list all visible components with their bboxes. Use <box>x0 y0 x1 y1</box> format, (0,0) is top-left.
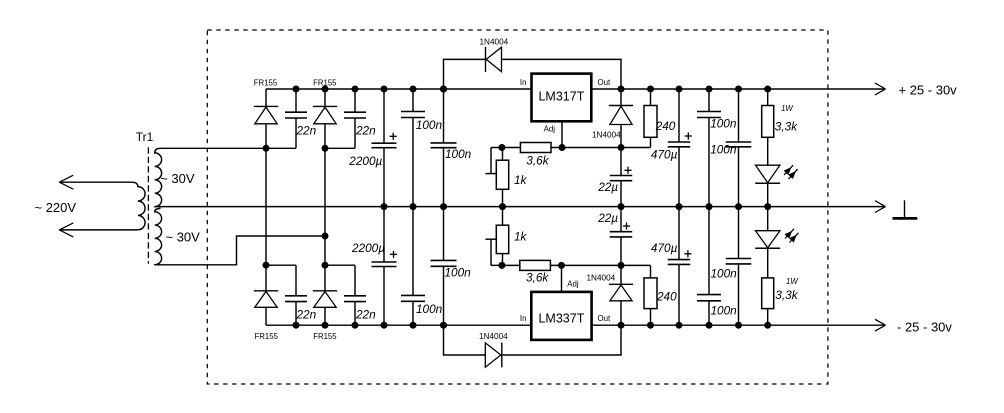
wire adj rail left (top) <box>491 147 520 149</box>
wire secondary top lead to bridge <box>160 147 297 149</box>
wire - rail left <box>266 324 532 326</box>
svg-text:100n: 100n <box>445 147 472 161</box>
wire U2 Adj pin <box>561 265 563 292</box>
svg-text:100n: 100n <box>416 302 443 316</box>
transformer Tr1 primary winding <box>59 182 145 230</box>
junction C13 top <box>706 86 713 93</box>
diode FR155 D2 (upper bridge right) <box>313 89 337 148</box>
- output arrow <box>875 319 886 331</box>
junction C18 bottom <box>735 322 742 329</box>
wire secondary bottom lead with jog <box>160 236 326 265</box>
wire AC column 2 <box>324 148 326 265</box>
capacitor 100n C13 (top) <box>697 89 721 207</box>
trimmer 1k P1 (top) <box>486 148 509 207</box>
plus C11 <box>624 169 631 171</box>
diode FR155 D4 (lower bridge right) <box>313 265 337 325</box>
wire lower bridge stub 2 <box>325 264 355 266</box>
svg-text:100n: 100n <box>710 143 737 157</box>
junction C7 top <box>410 86 417 93</box>
LED D7 (top) <box>755 165 780 206</box>
capacitor 22n C2 <box>344 89 366 148</box>
junction Out node (top) <box>618 86 625 93</box>
junction C5 top <box>381 86 388 93</box>
capacitor 470u C16 (bottom) <box>668 207 691 326</box>
svg-text:+ 25 - 30v: + 25 - 30v <box>899 83 958 98</box>
svg-text:Tr1: Tr1 <box>136 130 154 144</box>
junction C7 ground <box>410 203 417 210</box>
svg-text:22n: 22n <box>355 308 376 322</box>
capacitor 100n C8 (bottom) <box>401 207 425 326</box>
plus C16 <box>684 253 691 255</box>
junction D7 ground <box>764 203 771 210</box>
junction C12 ground <box>676 203 683 210</box>
regulator U1 LM317T <box>532 74 592 122</box>
plus C6 <box>390 253 397 255</box>
diode FR155 D3 (lower bridge left) <box>254 265 278 325</box>
wire In riser to protection diode (bottom) <box>444 325 486 355</box>
junction C11 ground <box>618 203 625 210</box>
junction C10 bottom <box>440 322 447 329</box>
capacitor 100n C10 (bottom) <box>431 207 457 326</box>
junction C9 ground <box>440 203 447 210</box>
junction AC2 top <box>322 145 329 152</box>
junction R6 bottom <box>764 322 771 329</box>
svg-text:1N4004: 1N4004 <box>480 38 509 47</box>
junction C4 bottom <box>352 322 359 329</box>
junction C12 top <box>676 86 683 93</box>
svg-text:Out: Out <box>598 78 612 87</box>
junction D4 bottom <box>322 322 329 329</box>
wire + rail left <box>266 88 532 90</box>
capacitor 100n C14 (top) <box>726 89 752 207</box>
junction P1 ground node <box>499 203 506 210</box>
capacitor 22n C4 <box>344 265 366 325</box>
svg-text:470µ: 470µ <box>651 148 678 162</box>
svg-text:100n: 100n <box>416 118 443 132</box>
wire - rail right <box>591 324 885 326</box>
junction Out node (bottom) <box>618 322 625 329</box>
transformer secondary lower winding ~30V <box>155 208 162 264</box>
capacitor 22u C11 (top) <box>610 148 633 207</box>
junction In node (bottom) <box>440 322 447 329</box>
junction C6 bottom <box>381 322 388 329</box>
svg-text:22n: 22n <box>296 308 317 322</box>
+ output arrow <box>875 83 886 95</box>
junction R5 bottom <box>647 322 654 329</box>
svg-text:Out: Out <box>598 314 612 323</box>
svg-text:100n: 100n <box>711 304 738 318</box>
junction C13 ground <box>706 203 713 210</box>
svg-text:3,3k: 3,3k <box>775 120 798 134</box>
junction C1 top <box>293 86 300 93</box>
junction U2 adj node <box>558 262 565 269</box>
capacitor 100n C7 (top) <box>401 89 425 207</box>
junction C5 ground <box>381 203 388 210</box>
svg-text:1W: 1W <box>781 104 793 113</box>
junction P2 bottom node <box>498 262 505 269</box>
svg-text:22n: 22n <box>355 123 376 137</box>
svg-text:22µ: 22µ <box>597 211 618 225</box>
ground symbol <box>893 200 918 218</box>
capacitor 100n C18 (bottom) <box>726 207 752 326</box>
junction C17 bottom <box>706 322 713 329</box>
wire ground rail <box>160 206 886 208</box>
resistor 240 R2 (top) <box>644 89 657 148</box>
junction R2 top <box>647 86 654 93</box>
wire adj rail left (bottom) <box>491 264 520 266</box>
diode 1N4004 D8 (LM337 protection) <box>485 343 502 368</box>
resistor 3,3k R3 (top) <box>762 89 774 165</box>
capacitor 100n C9 (top) <box>431 89 457 207</box>
svg-text:240: 240 <box>656 290 677 304</box>
junction D2 top <box>322 86 329 93</box>
LED D10 (bottom) <box>755 207 780 249</box>
svg-text:1N4004: 1N4004 <box>587 274 616 283</box>
svg-text:1W: 1W <box>786 277 798 286</box>
svg-text:2200µ: 2200µ <box>348 154 382 168</box>
wire lower bridge stub 1 <box>266 264 296 266</box>
transformer core <box>147 147 149 264</box>
svg-text:~ 220V: ~ 220V <box>35 200 77 215</box>
resistor 240 R5 (bottom) <box>644 265 657 325</box>
wire AC column 1 <box>265 148 267 265</box>
svg-text:3,6k: 3,6k <box>526 154 549 168</box>
capacitor 470u C12 (top) <box>668 89 691 207</box>
svg-text:22n: 22n <box>296 123 317 137</box>
resistor 3,3k R6 (bottom) <box>762 248 774 325</box>
capacitor 22u C15 (bottom) <box>610 207 633 266</box>
svg-text:FR155: FR155 <box>313 332 337 341</box>
junction D9 adj rail <box>618 262 625 269</box>
wire In riser to protection diode (top) <box>444 59 486 89</box>
resistor 3,6k R1 (top) <box>520 143 551 153</box>
junction C14 top <box>735 86 742 93</box>
primary input arrow top <box>59 175 73 189</box>
plus C5 <box>390 135 397 137</box>
junction C16 bottom <box>676 322 683 329</box>
svg-text:3,6k: 3,6k <box>526 271 549 285</box>
wire protection diode to Out riser (top) <box>502 59 622 89</box>
svg-text:LM317T: LM317T <box>538 89 584 103</box>
junction AC2 bottom <box>322 262 329 269</box>
diode 1N4004 D6 (adj discharge top) <box>609 89 633 148</box>
wire protection diode to Out riser (bottom) <box>502 325 621 355</box>
dashed enclosure border <box>207 30 828 384</box>
plus C15 <box>623 225 630 227</box>
svg-text:1k: 1k <box>514 173 528 187</box>
ground output arrow <box>875 201 886 213</box>
wire AC2 top stub <box>325 147 355 149</box>
svg-text:- 25 - 30v: - 25 - 30v <box>897 319 952 334</box>
svg-text:1N4004: 1N4004 <box>592 130 621 139</box>
diode 1N4004 D9 (adj discharge bottom) <box>609 265 633 325</box>
svg-text:LM337T: LM337T <box>538 311 584 325</box>
svg-text:FR155: FR155 <box>254 78 278 87</box>
svg-text:In: In <box>520 314 527 323</box>
svg-text:1N4004: 1N4004 <box>479 332 508 341</box>
svg-text:Adj: Adj <box>567 279 579 288</box>
junction C3 bottom <box>293 322 300 329</box>
svg-text:240: 240 <box>655 119 676 133</box>
svg-text:3,3k: 3,3k <box>775 288 798 302</box>
plus C12 <box>685 135 692 137</box>
junction C9 top <box>440 86 447 93</box>
svg-text:470µ: 470µ <box>651 241 678 255</box>
junction C14 ground <box>735 203 742 210</box>
diode FR155 D1 (upper bridge left) <box>254 89 278 148</box>
junction U1 adj node <box>559 144 566 151</box>
regulator U2 LM337T <box>531 292 591 340</box>
junction In node (top) <box>440 86 447 93</box>
svg-text:1k: 1k <box>514 229 528 243</box>
diode 1N4004 D5 (LM317 protection) <box>486 47 502 72</box>
svg-text:~ 30V: ~ 30V <box>160 171 195 186</box>
junction R3 top <box>764 86 771 93</box>
LED D10 arrows <box>785 229 799 243</box>
junction D6 adj rail <box>618 144 625 151</box>
junction AC1 bottom <box>263 262 270 269</box>
svg-text:2200µ: 2200µ <box>351 241 385 255</box>
wire adj rail right (top) <box>551 147 651 149</box>
wire adj rail right (bottom) <box>550 264 650 266</box>
transformer secondary upper winding ~30V <box>155 148 162 206</box>
svg-text:FR155: FR155 <box>255 332 279 341</box>
svg-text:100n: 100n <box>445 266 472 280</box>
LED D7 arrows <box>784 165 798 179</box>
junction AC2 jog <box>322 233 329 240</box>
svg-text:~ 30V: ~ 30V <box>166 230 201 245</box>
svg-text:22µ: 22µ <box>597 180 618 194</box>
capacitor 100n C17 (bottom) <box>697 207 721 326</box>
trimmer 1k P2 (bottom) <box>486 207 509 266</box>
junction C2 top <box>352 86 359 93</box>
svg-text:In: In <box>520 78 527 87</box>
primary input arrow bottom <box>59 223 73 237</box>
wire + rail right <box>591 88 885 90</box>
junction C8 bottom <box>410 322 417 329</box>
resistor 3,6k R4 (bottom) <box>520 260 551 270</box>
svg-text:100n: 100n <box>710 117 737 131</box>
svg-text:Adj: Adj <box>544 125 556 134</box>
junction P1 top node <box>498 144 505 151</box>
capacitor 22n C3 <box>285 265 307 325</box>
capacitor 22n C1 <box>285 89 307 148</box>
capacitor 2200u C6 (bottom) <box>372 207 397 326</box>
wire U1 Adj pin <box>561 121 563 147</box>
junction AC1 top <box>263 145 270 152</box>
svg-text:100n: 100n <box>711 267 738 281</box>
capacitor 2200u C5 (top) <box>372 89 397 207</box>
